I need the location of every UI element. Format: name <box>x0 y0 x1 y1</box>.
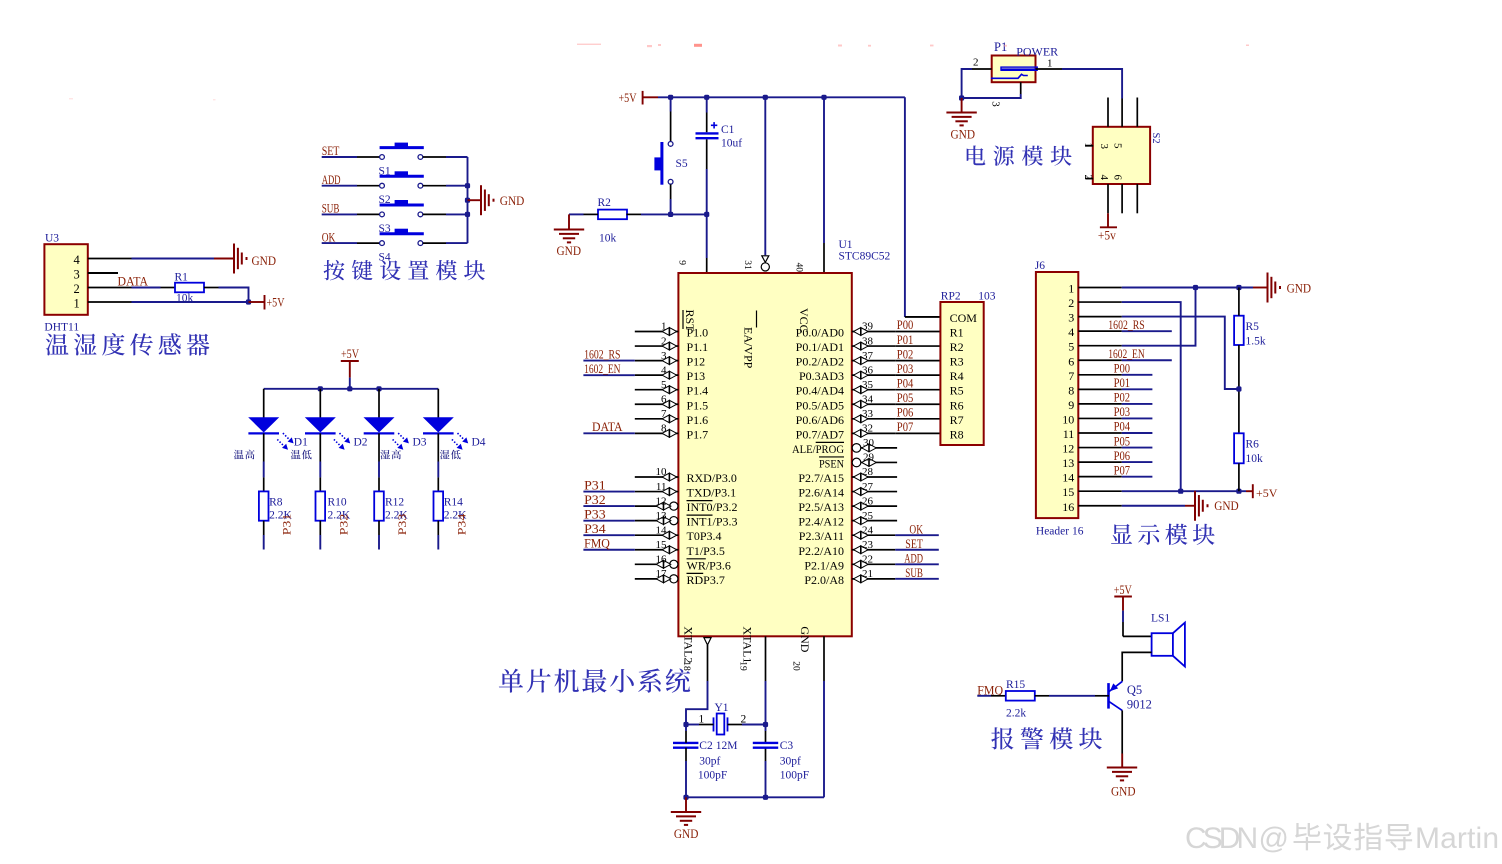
pin 9 RST pin <box>706 258 708 273</box>
svg-text:P1.0: P1.0 <box>687 326 709 340</box>
svg-text:P12: P12 <box>687 355 706 369</box>
wire to GND (P1) <box>961 98 963 112</box>
LED D3 emission arrows <box>393 433 409 450</box>
LED D3 <box>364 418 395 434</box>
svg-text:D1: D1 <box>294 436 308 448</box>
pin 34 P0.5/AD5 <box>852 403 896 405</box>
wire SET to switch S1 <box>322 156 357 158</box>
wire rail to LED D2 <box>319 389 321 418</box>
svg-text:P2.6/A14: P2.6/A14 <box>798 486 844 500</box>
J6 pin 4 wire <box>1078 330 1122 332</box>
svg-text:13: 13 <box>656 510 668 522</box>
wire LED to resistor R10 <box>319 433 321 461</box>
svg-text:P0.0/AD0: P0.0/AD0 <box>796 326 844 340</box>
svg-text:4: 4 <box>1098 175 1110 181</box>
svg-text:C1: C1 <box>721 124 735 136</box>
svg-text:P13: P13 <box>687 369 706 383</box>
pin 21 P2.0/A8 <box>852 578 896 580</box>
svg-text:31: 31 <box>742 260 752 270</box>
junction rail S5 <box>668 95 673 100</box>
svg-text:10: 10 <box>656 466 668 478</box>
svg-text:P02: P02 <box>1114 391 1131 405</box>
junction P1 gnd <box>959 95 964 100</box>
svg-text:100pF: 100pF <box>780 770 809 782</box>
svg-text:100pF: 100pF <box>698 770 727 782</box>
EA overline <box>756 311 758 328</box>
switch S2 box <box>1093 127 1150 184</box>
svg-text:R1: R1 <box>175 272 189 284</box>
junction SUB row <box>465 212 470 217</box>
svg-text:23: 23 <box>862 539 874 551</box>
svg-text:27: 27 <box>862 481 874 493</box>
svg-text:1602_EN: 1602_EN <box>1108 347 1144 361</box>
wire rail to LED D4 <box>437 389 439 418</box>
J6 pin 11 wire <box>1078 432 1122 434</box>
wire R12 down <box>378 521 380 535</box>
svg-text:D4: D4 <box>472 436 486 448</box>
svg-text:1602_RS: 1602_RS <box>584 347 620 361</box>
INT1/P3.3 overline <box>687 514 713 516</box>
svg-text:+5V: +5V <box>619 90 637 105</box>
pin 22 P2.1/A9 <box>852 563 896 565</box>
svg-text:R1: R1 <box>950 326 964 340</box>
J6 pin 10 wire <box>1078 417 1122 419</box>
svg-text:4: 4 <box>661 364 667 376</box>
wire R2 to GND <box>584 213 599 215</box>
J6 pin 15 wire to +5V <box>1078 490 1122 492</box>
svg-text:7: 7 <box>661 408 667 420</box>
svg-text:10: 10 <box>1062 412 1074 426</box>
wire rail to VCC pin <box>823 97 825 243</box>
wire rail to RP2 COM <box>904 97 906 317</box>
svg-text:6: 6 <box>661 393 667 405</box>
svg-text:P1: P1 <box>994 40 1007 54</box>
svg-text:DATA: DATA <box>592 420 623 434</box>
svg-text:1602_EN: 1602_EN <box>584 362 620 376</box>
svg-text:R12: R12 <box>385 497 404 509</box>
module label 温湿度传感器 <box>46 333 69 355</box>
wire R14 down <box>437 521 439 535</box>
svg-text:TXD/P3.1: TXD/P3.1 <box>687 486 737 500</box>
ground symbol GND (DHT11) <box>234 244 247 274</box>
crystal Y1 <box>714 714 728 735</box>
svg-text:P0.4/AD4: P0.4/AD4 <box>796 384 844 398</box>
pin 17 RDP3.7 <box>635 578 670 580</box>
pin 33 P0.6/AD6 <box>852 418 896 420</box>
svg-text:U1: U1 <box>839 239 853 251</box>
net wire OK (P2) <box>895 534 939 536</box>
ground symbol GND (P1) <box>946 113 976 126</box>
svg-text:P07: P07 <box>897 420 914 434</box>
J6 pin 13 wire <box>1078 461 1122 463</box>
resistor R12 <box>374 491 384 520</box>
svg-text:16: 16 <box>656 554 668 566</box>
svg-text:3: 3 <box>661 350 667 362</box>
faint red specks <box>69 44 1249 101</box>
svg-text:36: 36 <box>862 364 874 376</box>
svg-text:C2: C2 <box>699 740 713 752</box>
pin 15 T1/P3.5 <box>635 549 679 551</box>
svg-text:T1/P3.5: T1/P3.5 <box>687 544 725 558</box>
RD overline <box>687 572 704 574</box>
wire to RP2 COM pin <box>905 316 941 318</box>
svg-text:STC89C52: STC89C52 <box>839 251 891 263</box>
svg-text:R6: R6 <box>950 398 964 412</box>
wire C3 top <box>765 725 767 732</box>
U3 pin 2 wire <box>88 287 132 289</box>
svg-text:P34: P34 <box>584 522 606 536</box>
svg-text:38: 38 <box>862 335 874 347</box>
svg-text:GND: GND <box>557 243 582 258</box>
svg-text:GND: GND <box>1287 281 1312 296</box>
pin 5 P1.4 <box>635 389 679 391</box>
svg-text:COM: COM <box>950 311 978 325</box>
wire R1 to +5V node <box>204 287 219 289</box>
svg-text:P31: P31 <box>584 478 606 492</box>
svg-text:ALE/PROG: ALE/PROG <box>792 442 844 456</box>
svg-text:P05: P05 <box>897 391 914 405</box>
LED D2 emission arrows <box>334 433 350 450</box>
capacitor C1 <box>696 122 719 138</box>
connector J6 box <box>1036 272 1078 518</box>
LED D4 emission arrows <box>452 433 468 450</box>
wire C1 to RST node <box>706 139 708 169</box>
resistor R5 <box>1234 316 1244 345</box>
svg-text:15: 15 <box>1062 485 1074 499</box>
svg-text:P04: P04 <box>1114 420 1131 434</box>
junction ADD row <box>465 183 470 188</box>
pin 37 P0.2/AD2 <box>852 360 896 362</box>
svg-text:10k: 10k <box>599 233 617 245</box>
svg-text:OK: OK <box>909 522 923 536</box>
power +5V (DHT11) <box>264 295 266 310</box>
S2 top pin b wire <box>1121 99 1123 127</box>
sensor U3 DHT11 box <box>44 244 87 315</box>
pin 3 P12 <box>635 360 679 362</box>
svg-text:3: 3 <box>1098 144 1110 150</box>
junction GND branch <box>465 198 470 203</box>
wire collector to GND <box>1121 710 1123 753</box>
svg-text:+5V: +5V <box>267 295 285 310</box>
PSEN overline <box>819 456 844 458</box>
capacitor C2 <box>673 743 698 748</box>
svg-text:2: 2 <box>1068 296 1074 310</box>
watermark 毕设指导 <box>1294 823 1321 850</box>
svg-text:INT0/P3.2: INT0/P3.2 <box>687 500 738 514</box>
svg-text:17: 17 <box>656 568 668 580</box>
svg-text:3: 3 <box>990 101 1002 107</box>
S2 top pin c <box>1136 98 1138 127</box>
svg-text:13: 13 <box>1062 456 1074 470</box>
junction pin15/pin2 <box>1178 489 1183 494</box>
pin 28 P2.7/A15 <box>852 476 897 478</box>
svg-text:R10: R10 <box>328 497 347 509</box>
wire P0.0/AD0 to RP2 <box>895 331 940 333</box>
svg-text:P2.1/A9: P2.1/A9 <box>804 558 844 572</box>
wire XTAL2 to crystal <box>686 681 708 725</box>
ground symbol GND (R2) <box>554 230 584 243</box>
svg-text:P07: P07 <box>1114 463 1131 477</box>
svg-text:CSDN @: CSDN @ <box>1185 822 1289 855</box>
svg-text:RP2: RP2 <box>941 291 961 303</box>
svg-text:P33: P33 <box>584 507 606 521</box>
RST overline <box>682 310 684 329</box>
resistor R6 <box>1234 433 1244 463</box>
svg-text:28: 28 <box>862 466 874 478</box>
junction rail VCC <box>821 95 826 100</box>
S2 bottom pin c <box>1136 184 1138 213</box>
junction C3 gnd <box>763 795 768 800</box>
EA pin no-connect marker <box>761 256 769 271</box>
junction crystal left <box>683 722 688 727</box>
svg-text:4: 4 <box>1068 325 1074 339</box>
svg-text:+5V: +5V <box>341 346 359 361</box>
wire P0.1/AD1 to RP2 <box>895 345 940 347</box>
wire rail to LED D3 <box>378 389 380 418</box>
pin 23 P2.2/A10 <box>852 549 896 551</box>
power +5V (J6) <box>1252 484 1254 498</box>
LED supply rail wire <box>264 388 439 390</box>
svg-text:XTAL1: XTAL1 <box>741 626 755 663</box>
svg-text:LS1: LS1 <box>1151 613 1170 625</box>
svg-text:P2.2/A10: P2.2/A10 <box>798 544 844 558</box>
pin 11 TXD/P3.1 <box>635 491 679 493</box>
svg-text:20: 20 <box>790 661 800 671</box>
svg-text:R14: R14 <box>444 497 463 509</box>
wire to +5V (DHT11) <box>249 301 265 303</box>
wire P0.6/AD6 to RP2 <box>895 418 940 420</box>
svg-text:6: 6 <box>1112 175 1124 181</box>
svg-text:R8: R8 <box>950 427 964 441</box>
svg-text:GND: GND <box>674 826 699 841</box>
RST node wire <box>626 213 641 215</box>
wire C2 top <box>685 725 687 732</box>
svg-text:INT1/P3.3: INT1/P3.3 <box>687 515 738 529</box>
junction C1/RST <box>704 212 709 217</box>
svg-text:R4: R4 <box>950 369 964 383</box>
svg-text:P01: P01 <box>1114 376 1131 390</box>
svg-text:35: 35 <box>862 379 874 391</box>
svg-text:GND: GND <box>1214 498 1239 513</box>
junction pin1/R5 <box>1236 285 1241 290</box>
net wire 1602_RS <box>583 360 634 362</box>
svg-text:P0.2/AD2: P0.2/AD2 <box>796 355 844 369</box>
pin 16 WR/P3.6 <box>635 563 670 565</box>
svg-text:40: 40 <box>794 263 804 273</box>
svg-text:S5: S5 <box>676 158 688 170</box>
pin 14 T0P3.4 <box>635 534 679 536</box>
U3 pin 3 stub <box>88 272 118 274</box>
pin 20 wire to ground rail <box>823 681 825 797</box>
transistor Q5 9012 <box>1109 681 1123 710</box>
S2 left pin stubs <box>1085 145 1093 147</box>
svg-text:21: 21 <box>862 568 873 580</box>
speaker LS1 <box>1152 623 1185 667</box>
resistor network RP2 box <box>940 302 983 445</box>
svg-text:34: 34 <box>862 393 874 405</box>
svg-text:S2: S2 <box>1150 133 1161 144</box>
wire S1 to bus <box>423 156 446 158</box>
svg-text:D2: D2 <box>354 436 368 448</box>
junction rail C1 <box>704 95 709 100</box>
svg-text:14: 14 <box>1062 471 1074 485</box>
svg-text:R6: R6 <box>1246 439 1260 451</box>
pin 18 wire <box>707 645 709 681</box>
net wire P32 <box>583 505 634 507</box>
junction crystal right <box>763 722 768 727</box>
svg-text:P0.6/AD6: P0.6/AD6 <box>796 413 844 427</box>
svg-text:9012: 9012 <box>1127 698 1152 712</box>
pin 27 P2.6/A14 <box>852 491 897 493</box>
junction rail D2 <box>318 386 323 391</box>
LED label 温低 <box>291 450 301 459</box>
svg-text:POWER: POWER <box>1016 45 1058 59</box>
svg-text:R2: R2 <box>598 197 612 209</box>
power +5v (S2) <box>1100 226 1117 228</box>
module label 电源模块 <box>967 145 986 165</box>
wire +5V to LED rail <box>349 361 351 378</box>
wire SUB to switch S3 <box>322 213 357 215</box>
svg-text:4: 4 <box>74 253 81 267</box>
svg-text:+5V: +5V <box>1114 582 1132 597</box>
J6 pin 8 wire <box>1078 388 1122 390</box>
wire +5V down (alarm) <box>1122 597 1124 611</box>
wire R8 down <box>263 521 265 535</box>
net wire P33 <box>583 520 634 522</box>
LED D1 <box>248 418 279 434</box>
svg-text:11: 11 <box>1063 427 1075 441</box>
wire S2 to +5V <box>1107 213 1109 227</box>
svg-text:3: 3 <box>1068 311 1074 325</box>
svg-text:33: 33 <box>862 408 874 420</box>
svg-text:R8: R8 <box>269 497 283 509</box>
svg-text:P2.5/A13: P2.5/A13 <box>798 500 844 514</box>
J6 pin 9 wire <box>1078 403 1122 405</box>
svg-text:P00: P00 <box>1114 362 1131 376</box>
resistor R2 <box>598 210 627 220</box>
svg-text:8: 8 <box>661 423 667 435</box>
switch S5 top wire <box>670 97 672 111</box>
LED D4 <box>423 418 454 434</box>
svg-text:R5: R5 <box>950 384 964 398</box>
svg-text:P00: P00 <box>897 318 914 332</box>
net wire SUB (P2) <box>895 578 939 580</box>
svg-text:P32: P32 <box>338 513 350 535</box>
wire pin1 to R5 <box>1238 288 1240 316</box>
net wire P31 <box>583 491 634 493</box>
WR overline <box>687 558 706 560</box>
svg-text:39: 39 <box>862 321 874 333</box>
J6 pin 2 wire <box>1078 301 1122 303</box>
svg-text:Q5: Q5 <box>1127 683 1142 697</box>
pin 36 P0.3AD3 <box>852 374 896 376</box>
svg-text:RDP3.7: RDP3.7 <box>687 573 725 587</box>
junction C2 gnd <box>683 795 688 800</box>
U3 pin 4 wire to GND <box>88 258 132 260</box>
pin 4 P13 <box>635 374 679 376</box>
J6 pin 12 wire <box>1078 447 1122 449</box>
S2 bottom pin b <box>1121 184 1123 213</box>
pin 39 P0.0/AD0 <box>852 331 896 333</box>
svg-text:30: 30 <box>863 437 875 449</box>
svg-text:P06: P06 <box>1114 449 1131 463</box>
svg-text:Martin: Martin <box>1415 822 1499 855</box>
switch S1 <box>380 143 424 160</box>
wire LED to resistor R12 <box>378 433 380 461</box>
svg-text:GND: GND <box>951 127 976 142</box>
svg-text:GND: GND <box>500 193 525 208</box>
pin 38 P0.1/AD1 <box>852 345 896 347</box>
pin 6 P1.5 <box>635 403 679 405</box>
svg-text:25: 25 <box>862 510 874 522</box>
svg-text:2: 2 <box>1082 175 1093 180</box>
pin 13 INT1/P3.3 <box>635 520 670 522</box>
svg-text:2: 2 <box>973 57 979 69</box>
svg-text:6: 6 <box>1068 354 1074 368</box>
wire to GND (alarm) <box>1121 754 1123 767</box>
svg-text:SUB: SUB <box>905 566 923 580</box>
P1 pin 1 wire <box>1036 68 1063 70</box>
switch S2 <box>380 171 424 188</box>
wire bus to GND <box>468 199 481 201</box>
resistor R10 <box>316 491 326 520</box>
switch S3 <box>380 200 424 217</box>
pin 25 P2.4/A12 <box>852 520 897 522</box>
svg-text:2: 2 <box>661 335 667 347</box>
resistor R15 <box>1006 691 1035 701</box>
svg-text:12: 12 <box>656 495 667 507</box>
wire R5 to R6 <box>1238 345 1240 433</box>
S2 bottom pin a <box>1107 184 1109 213</box>
svg-text:GND: GND <box>1111 784 1136 799</box>
resistor R1 <box>175 283 204 293</box>
svg-text:SET: SET <box>905 537 923 551</box>
J6 pin 3 wire <box>1078 316 1122 318</box>
svg-text:GND: GND <box>252 253 277 268</box>
svg-text:Y1: Y1 <box>715 702 729 714</box>
svg-text:+5V: +5V <box>1256 486 1278 500</box>
svg-text:C3: C3 <box>780 740 794 752</box>
svg-text:2: 2 <box>74 282 80 296</box>
svg-text:GND: GND <box>798 626 812 652</box>
J6 pin 5 wire <box>1078 345 1122 347</box>
switch S4 <box>380 229 424 246</box>
button ground bus wire <box>467 157 469 243</box>
svg-text:P01: P01 <box>897 333 914 347</box>
svg-text:P1.5: P1.5 <box>687 398 709 412</box>
svg-text:DHT11: DHT11 <box>44 322 79 334</box>
LED D2 <box>305 418 336 434</box>
svg-text:P0.3AD3: P0.3AD3 <box>799 369 844 383</box>
net wire ADD (P2) <box>895 563 939 565</box>
svg-text:PSEN: PSEN <box>819 456 844 470</box>
net wire SET (P2) <box>895 549 939 551</box>
svg-text:P1.4: P1.4 <box>687 384 709 398</box>
svg-text:16: 16 <box>1062 500 1074 514</box>
resistor R8 <box>259 491 269 520</box>
U3 pin 1 wire <box>88 301 132 303</box>
LED label 湿高 <box>380 450 390 459</box>
svg-text:9: 9 <box>677 260 687 265</box>
net wire FMQ (alarm) <box>977 695 991 697</box>
svg-text:103: 103 <box>978 291 996 303</box>
svg-text:1: 1 <box>1082 143 1093 148</box>
svg-text:EA/VPP: EA/VPP <box>742 327 756 369</box>
wire R6 to pin15 <box>1238 463 1240 491</box>
svg-text:P0.5/AD5: P0.5/AD5 <box>796 398 844 412</box>
svg-text:1: 1 <box>661 321 667 333</box>
svg-text:15: 15 <box>656 539 668 551</box>
